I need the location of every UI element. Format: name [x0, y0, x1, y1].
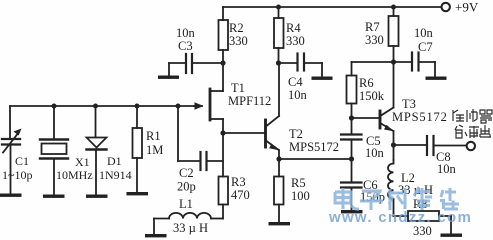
svg-text:150k: 150k: [359, 89, 385, 103]
capacitor C5: [341, 133, 362, 135]
wire top +9V rail: [223, 6, 441, 8]
svg-text:10MHz: 10MHz: [56, 168, 93, 182]
svg-text:1M: 1M: [146, 143, 163, 157]
wire gate rail: [10, 105, 194, 107]
svg-text:MPF112: MPF112: [228, 94, 271, 108]
svg-text:33 µ H: 33 µ H: [173, 221, 208, 235]
svg-text:20p: 20p: [177, 180, 196, 194]
node T3 base junction: [349, 115, 354, 120]
resistor R8: [394, 215, 409, 217]
resistor R5: [274, 177, 284, 205]
node T2 emitter: [276, 156, 281, 161]
label 缓冲器的输出 (buffer output, hand-drawn glyphs): [453, 109, 492, 138]
capacitor C3: [169, 62, 185, 64]
svg-text:MPS5172: MPS5172: [392, 110, 448, 124]
transistor T1 (JFET): [209, 89, 212, 120]
svg-text:10n: 10n: [288, 88, 308, 102]
svg-text:100: 100: [291, 189, 310, 203]
node R4 top: [276, 5, 281, 10]
svg-text:R5: R5: [291, 176, 306, 190]
svg-text:330: 330: [413, 224, 432, 238]
transistor T2: [223, 132, 264, 134]
svg-text:10n: 10n: [365, 146, 385, 160]
svg-text:R6: R6: [359, 76, 374, 90]
svg-text:T1: T1: [231, 81, 245, 95]
inductor L2: [393, 160, 395, 164]
wire T2 emitter to C5/C6 node: [279, 158, 352, 160]
svg-text:330: 330: [229, 34, 248, 48]
svg-text:C4: C4: [288, 75, 303, 89]
svg-text:330: 330: [286, 34, 305, 48]
svg-text:www. cndzz. com: www. cndzz. com: [328, 209, 472, 226]
node R4 bottom / C4: [276, 60, 281, 65]
capacitor C8: [394, 144, 427, 146]
svg-text:D1: D1: [107, 154, 122, 168]
resistor R1: [136, 106, 138, 128]
svg-text:R1: R1: [146, 129, 161, 143]
svg-text:10n: 10n: [414, 26, 434, 40]
+9V terminal: [442, 3, 450, 11]
svg-text:T3: T3: [402, 97, 416, 111]
node R2 bottom / C3 junction: [220, 60, 225, 65]
capacitor C1 (variable): [2, 138, 20, 140]
node T1 source / T2 base junction: [220, 130, 225, 135]
node C5/C6: [349, 156, 354, 161]
node T3 emitter: [391, 142, 396, 147]
svg-text:1~10p: 1~10p: [2, 168, 33, 182]
resistor R7: [393, 7, 395, 16]
svg-text:L1: L1: [179, 197, 193, 211]
svg-text:X1: X1: [75, 155, 90, 169]
svg-text:10n: 10n: [176, 26, 196, 40]
capacitor C7: [394, 61, 412, 63]
svg-text:330: 330: [365, 33, 384, 47]
node R7 bottom: [391, 59, 396, 64]
node C2: [176, 104, 181, 109]
svg-text:C7: C7: [418, 40, 433, 54]
inductor L1: [211, 218, 223, 220]
transistor T3: [352, 117, 380, 119]
svg-text:1N914: 1N914: [99, 168, 132, 182]
svg-text:T2: T2: [289, 127, 303, 141]
svg-text:R3: R3: [231, 175, 246, 189]
diode D1: [95, 106, 97, 137]
svg-text:10n: 10n: [437, 162, 457, 176]
capacitor C2: [177, 106, 179, 161]
svg-text:R4: R4: [286, 21, 301, 35]
ground (C3): [168, 63, 170, 75]
svg-text:C3: C3: [178, 39, 193, 53]
wire R7 bottom to R6 top: [352, 61, 394, 63]
capacitor C6: [341, 181, 362, 183]
node D1: [93, 104, 98, 109]
node R1: [135, 104, 140, 109]
capacitor C4: [279, 62, 297, 64]
crystal X1: [53, 106, 55, 139]
resistor R6: [351, 62, 353, 76]
svg-text:470: 470: [231, 188, 250, 202]
svg-text:R2: R2: [229, 21, 244, 35]
svg-text:+9V: +9V: [455, 0, 479, 15]
resistor R2: [219, 20, 229, 50]
resistor R4: [278, 7, 280, 18]
wire R2 top lead: [222, 7, 224, 20]
svg-text:C2: C2: [179, 166, 194, 180]
svg-text:MPS5172: MPS5172: [289, 140, 339, 154]
node R7 top: [391, 5, 396, 10]
resistor R3: [219, 177, 229, 205]
output terminal: [467, 142, 475, 150]
svg-text:C1: C1: [15, 154, 29, 168]
watermark 电子制作站 www.cndzz.com: [328, 187, 472, 226]
node X1: [52, 104, 57, 109]
svg-text:R7: R7: [365, 20, 380, 34]
